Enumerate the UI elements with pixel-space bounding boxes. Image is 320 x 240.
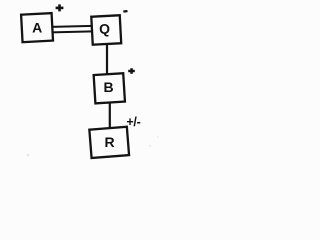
wire A-Q double line (52, 26, 94, 33)
wire B-R (109, 102, 111, 129)
block A (21, 13, 53, 42)
label + (node B, top right) (128, 68, 135, 74)
svg-text:Q: Q (99, 21, 110, 37)
label - (node Q, top right) (123, 10, 127, 13)
svg-text:B: B (104, 79, 114, 95)
svg-text:R: R (104, 134, 114, 150)
block Q (91, 15, 121, 44)
svg-text:+/-: +/- (126, 115, 140, 129)
scan speckle right (149, 145, 151, 147)
block R (89, 127, 129, 158)
svg-text:A: A (32, 20, 42, 36)
scan speckle left (27, 154, 30, 157)
block B (94, 73, 125, 103)
label + (node A-Q, top) (56, 4, 64, 11)
wire Q-B (106, 44, 108, 75)
